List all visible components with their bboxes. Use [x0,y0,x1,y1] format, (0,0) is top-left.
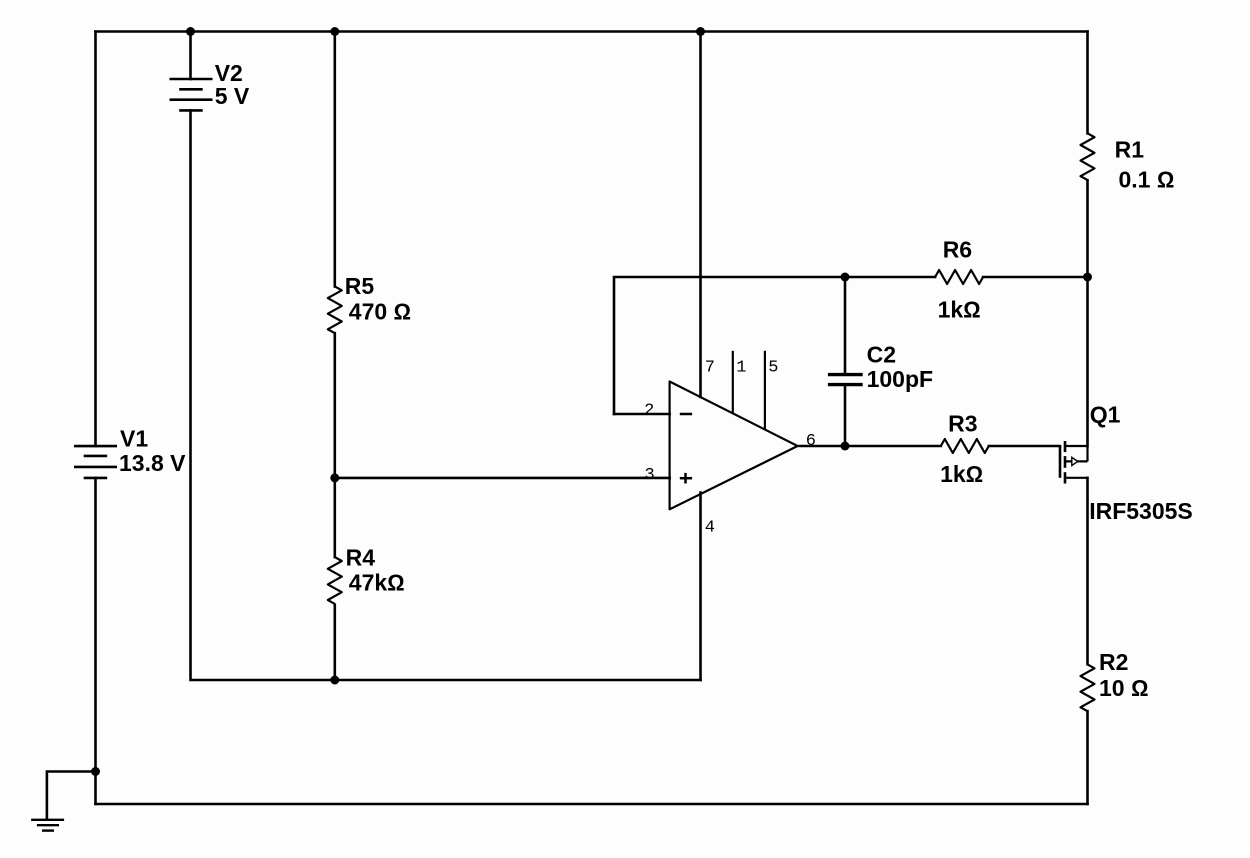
node feedback C2 [841,273,850,282]
node output C2 [841,442,850,451]
resistor R6 [935,236,983,322]
svg-text:Q1: Q1 [1090,401,1121,427]
wire left rail upper [94,32,97,447]
svg-text:1: 1 [736,358,746,377]
svg-text:R2: R2 [1099,649,1128,675]
battery V2 [170,60,250,111]
svg-text:3: 3 [645,466,655,485]
svg-text:V1: V1 [120,425,148,451]
svg-text:R4: R4 [346,545,376,571]
Q1 source terminal [1065,477,1088,479]
svg-text:1kΩ: 1kΩ [940,461,983,487]
svg-text:47kΩ: 47kΩ [349,569,405,595]
svg-text:C2: C2 [867,342,896,368]
resistor R3 [940,411,989,487]
resistor R2 [1081,649,1149,711]
wire R6 to right rail [983,276,1087,279]
svg-text:4: 4 [705,518,715,537]
wire R5 top lead [333,32,336,287]
wire left rail lower [94,478,97,804]
wire output net [800,445,941,448]
op-amp U1 [644,351,816,538]
U1 minus sign [680,413,692,416]
svg-text:5: 5 [768,358,778,377]
wire pin7 net [699,32,702,397]
svg-text:V2: V2 [215,60,243,86]
svg-text:5 V: 5 V [215,83,250,109]
ground [31,820,64,831]
svg-text:10 Ω: 10 Ω [1099,675,1149,701]
wire feedback to R6 [845,276,935,279]
wire pin2 stub [614,413,670,416]
U1 plus sign [680,473,692,484]
wire R5-R4 middle [333,333,336,557]
svg-text:0.1 Ω: 0.1 Ω [1119,166,1175,192]
wire pin3 input net [335,477,670,480]
node R6 right rail [1083,273,1092,282]
node V2 top [186,27,195,36]
transistor Q1 [1060,401,1193,523]
wire R3 to gate [989,445,1060,448]
wire right rail upper [1086,32,1089,134]
Q1 channel dashes [1064,441,1067,484]
svg-text:7: 7 [705,358,715,377]
wire right rail middle [1086,180,1089,446]
U1 pin 5 lead [764,351,766,429]
svg-text:R3: R3 [948,411,977,437]
wire V2 top lead [189,32,192,80]
node R5 top [330,27,339,36]
Q1 body arrow [1072,457,1078,465]
wire feedback loop [614,277,845,414]
wire C2 bottom lead [844,386,847,446]
wire right rail lower [1086,478,1089,664]
wire R4 bottom lead [333,605,336,680]
svg-text:6: 6 [806,432,816,451]
svg-text:1kΩ: 1kΩ [938,297,981,323]
node ground junction [91,767,100,776]
wire ground tap [47,772,96,820]
svg-text:13.8 V: 13.8 V [119,450,186,476]
svg-text:2: 2 [644,401,654,420]
wire op-amp pin4 lead [699,493,702,680]
node R4 bottom [330,676,339,685]
svg-text:470 Ω: 470 Ω [349,299,411,325]
wire C2 top lead [844,277,847,373]
resistor R4 [328,545,405,604]
wire top rail [96,30,1088,33]
svg-text:R1: R1 [1115,136,1145,162]
node pin3 junction [330,473,339,482]
wire V2 bottom lead [191,110,701,680]
wire bottom rail [96,803,1088,806]
U1 pin 1 lead [732,351,734,414]
svg-text:100pF: 100pF [867,366,933,392]
svg-text:R5: R5 [345,273,375,299]
Q1 body terminal [1065,460,1088,462]
svg-text:IRF5305S: IRF5305S [1089,498,1193,524]
node pin7 top [696,27,705,36]
svg-text:R6: R6 [943,236,972,262]
Q1 body-drain link [1086,446,1088,461]
wire right rail bottom [1086,711,1089,804]
resistor R1 [1081,133,1175,192]
Q1 drain terminal [1065,445,1088,447]
battery V1 [74,425,186,478]
Q1 gate bar [1059,446,1062,478]
capacitor C2 [828,342,933,392]
resistor R5 [328,273,411,333]
